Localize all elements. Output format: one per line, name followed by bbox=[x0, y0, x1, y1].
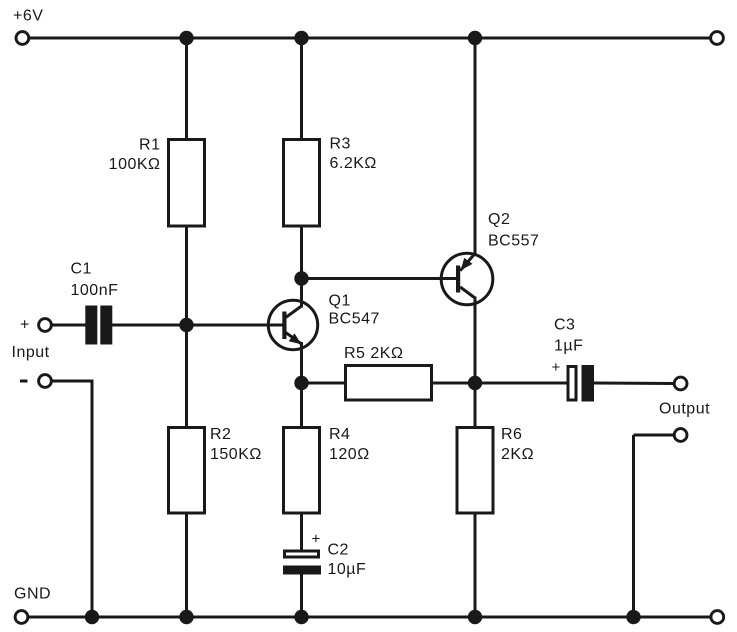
svg-text:Input: Input bbox=[12, 344, 50, 361]
node bottom rail input minus bbox=[85, 610, 99, 624]
terminal Output plus bbox=[674, 377, 687, 390]
svg-text:+: + bbox=[552, 359, 561, 376]
node bottom rail C2 bbox=[294, 610, 308, 624]
wire Output minus vertical to GND rail bbox=[632, 435, 635, 617]
svg-text:BC547: BC547 bbox=[329, 311, 380, 328]
svg-text:C3: C3 bbox=[554, 317, 575, 334]
node top rail R1 bbox=[179, 31, 193, 45]
terminal GND right bbox=[711, 611, 724, 624]
svg-text:C2: C2 bbox=[328, 542, 349, 559]
svg-text:+: + bbox=[20, 317, 30, 334]
wire C2 to GND rail bbox=[300, 574, 303, 617]
terminal +6V right bbox=[711, 32, 724, 45]
svg-text:Output: Output bbox=[659, 401, 710, 418]
terminal GND left bbox=[15, 611, 28, 624]
resistor R4 120 bbox=[284, 426, 370, 513]
wire Input minus horizontal bbox=[52, 380, 92, 383]
node Q1 emitter R4 R5 junction bbox=[294, 376, 308, 390]
wire Q2 column top (rail to Q2 emitter) bbox=[474, 38, 477, 255]
svg-text:R6: R6 bbox=[501, 426, 522, 443]
wire Output minus horizontal bbox=[634, 434, 675, 437]
svg-text:R4: R4 bbox=[329, 426, 350, 443]
svg-text:R1: R1 bbox=[139, 137, 160, 154]
svg-text:120Ω: 120Ω bbox=[329, 446, 370, 463]
capacitor C3 1uF electrolytic bbox=[552, 317, 595, 402]
wire Q2 collector to node bbox=[474, 297, 477, 428]
node bottom rail R6 bbox=[468, 610, 482, 624]
wire Q1 emitter to node bbox=[300, 343, 303, 428]
transistor Q1 BC547 bbox=[266, 293, 380, 352]
node Q1 collector junction bbox=[294, 271, 308, 285]
wire Input plus to C1 bbox=[52, 324, 86, 327]
node top rail Q2 bbox=[468, 31, 482, 45]
wire Input minus vertical to GND rail bbox=[91, 380, 94, 618]
svg-text:R5 2KΩ: R5 2KΩ bbox=[344, 345, 403, 362]
svg-text:2KΩ: 2KΩ bbox=[501, 446, 534, 463]
svg-text:1µF: 1µF bbox=[554, 338, 583, 355]
resistor R6 2K bbox=[457, 426, 534, 513]
wire R6 bottom to GND rail bbox=[474, 511, 477, 617]
terminal Input minus bbox=[39, 375, 52, 388]
terminal +6V left bbox=[16, 32, 29, 45]
wire R5 right to node bbox=[430, 382, 475, 385]
svg-text:Q2: Q2 bbox=[488, 211, 510, 228]
svg-text:6.2KΩ: 6.2KΩ bbox=[330, 155, 377, 172]
wire C1 to Q1 base bbox=[112, 324, 285, 327]
svg-text:C1: C1 bbox=[71, 261, 92, 278]
wire node to Q2 base bbox=[302, 277, 458, 280]
node Q2 collector R5 R6 C3 junction bbox=[468, 376, 482, 390]
node bottom rail output minus bbox=[626, 610, 640, 624]
wire R1 column top (rail to R1) bbox=[185, 38, 188, 140]
svg-text:10µF: 10µF bbox=[328, 561, 367, 578]
svg-text:100nF: 100nF bbox=[71, 282, 119, 299]
wire R1 bottom to R2 top bbox=[185, 224, 188, 428]
wire R3 column top (rail to R3) bbox=[300, 38, 303, 140]
node top rail R3 bbox=[294, 31, 308, 45]
wire R2 bottom to GND rail bbox=[185, 511, 188, 617]
svg-text:Q1: Q1 bbox=[329, 293, 351, 310]
resistor R2 150K bbox=[169, 426, 262, 513]
wire R4 bottom to C2 bbox=[300, 511, 303, 550]
wire GND bottom rail bbox=[29, 616, 711, 619]
capacitor C2 10uF electrolytic bbox=[283, 531, 366, 579]
node C1 to R1 R2 junction bbox=[179, 318, 193, 332]
svg-text:BC557: BC557 bbox=[488, 233, 539, 250]
wire C3 to Output plus bbox=[594, 382, 674, 386]
svg-text:150KΩ: 150KΩ bbox=[210, 446, 262, 463]
svg-text:R3: R3 bbox=[330, 136, 351, 153]
terminal Output minus bbox=[674, 429, 687, 442]
wire node to C3 bbox=[475, 382, 567, 385]
svg-text:100KΩ: 100KΩ bbox=[109, 156, 161, 173]
svg-text:R2: R2 bbox=[210, 426, 231, 443]
label Input minus sign bbox=[20, 380, 28, 383]
wire +6V top rail bbox=[30, 37, 711, 40]
terminal Input plus bbox=[39, 319, 52, 332]
wire node to R5 left bbox=[302, 382, 347, 385]
transistor Q2 BC557 bbox=[439, 211, 539, 305]
resistor R3 6.2K bbox=[284, 136, 377, 227]
resistor R5 2K horizontal bbox=[344, 345, 432, 400]
svg-text:+: + bbox=[312, 531, 321, 548]
svg-text:+6V: +6V bbox=[13, 8, 43, 25]
svg-text:GND: GND bbox=[14, 586, 51, 603]
wire R3 bottom to node at Q1 collector bbox=[300, 224, 303, 308]
node bottom rail R2 bbox=[179, 610, 193, 624]
resistor R1 100K bbox=[109, 137, 205, 227]
capacitor C1 100nF bbox=[71, 261, 119, 345]
